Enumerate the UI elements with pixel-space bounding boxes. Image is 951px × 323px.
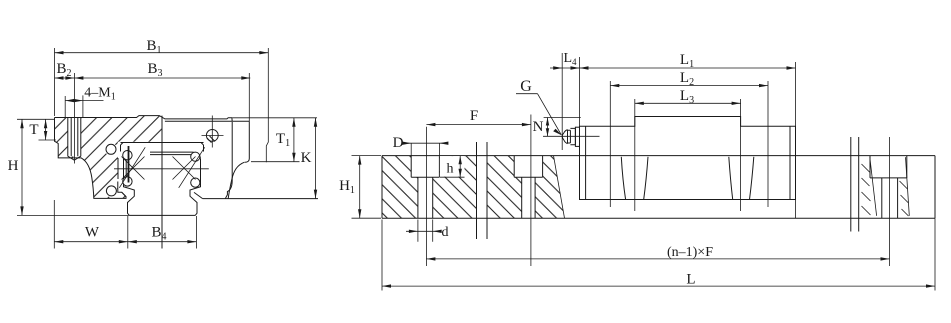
dim L	[382, 218, 935, 290]
rail right lower side	[190, 159, 201, 216]
rail cross-section	[121, 143, 204, 152]
dim H	[8, 119, 130, 215]
svg-text:W: W	[85, 225, 100, 241]
hole 3	[870, 156, 907, 219]
end cap right face	[245, 121, 250, 162]
end cap top (view half)	[232, 120, 249, 122]
hole voids	[411, 155, 439, 177]
carriage hatched body (left sectioned half)	[54, 116, 162, 199]
tapped hole M1	[68, 118, 81, 161]
svg-text:T: T	[29, 122, 38, 138]
dim (n-1)xF	[426, 137, 889, 266]
rail outline	[382, 156, 935, 219]
svg-text:h: h	[447, 162, 454, 177]
grease nipple	[562, 128, 575, 144]
dim L1	[580, 52, 796, 218]
svg-text:F: F	[470, 108, 478, 124]
dim F	[426, 108, 531, 266]
svg-text:H: H	[8, 158, 19, 174]
dim H1	[339, 156, 381, 219]
label G with leader	[516, 78, 562, 135]
dim B1	[55, 38, 269, 162]
carriage outline	[55, 116, 233, 122]
balls	[106, 144, 116, 154]
svg-text:K: K	[301, 150, 312, 166]
carriage left profile	[55, 118, 127, 199]
carriage counterbore hole (view half)	[206, 130, 218, 142]
svg-text:D: D	[393, 135, 404, 151]
hole 1	[411, 156, 439, 219]
carriage inner wall (cavity boundary)	[118, 182, 126, 197]
dim L4	[550, 51, 580, 150]
break lines	[477, 137, 859, 239]
rail left groove outline	[118, 158, 126, 179]
end cap skirt curve	[228, 162, 244, 198]
tapped hole M1 void	[68, 118, 81, 157]
carriage right edge (view half)	[225, 122, 232, 199]
svg-text:N: N	[533, 119, 544, 135]
carriage side view	[580, 117, 796, 200]
hole 3 tapered wall lines	[870, 157, 910, 216]
carriage top step second line (view half)	[165, 120, 232, 122]
dim B2 / B3	[55, 61, 251, 121]
rail left lower side	[124, 159, 135, 216]
dim K	[301, 118, 318, 199]
svg-text:L: L	[686, 272, 695, 288]
groove bold line	[128, 146, 130, 183]
dim N	[533, 118, 581, 137]
dim W	[54, 200, 196, 249]
dim h	[440, 156, 465, 177]
rail hatched segments	[382, 155, 565, 219]
hole 2	[514, 156, 542, 219]
dim d	[406, 220, 449, 242]
dim T1	[233, 118, 318, 162]
ball cavity voids	[105, 143, 118, 156]
legs	[621, 157, 754, 200]
svg-text:G: G	[520, 78, 532, 95]
section centerline	[161, 116, 163, 249]
dim T	[29, 119, 56, 140]
contact angle crosses	[119, 147, 145, 188]
carriage right lip chamfer	[194, 192, 203, 198]
dim L2	[610, 70, 768, 207]
hole 3 area hatch ticks	[862, 164, 909, 216]
rail bottom	[129, 214, 195, 216]
hole centerline	[73, 86, 75, 164]
dim 4-M1	[65, 86, 116, 118]
dim D	[393, 135, 449, 156]
dim L3	[635, 88, 741, 211]
svg-text:d: d	[442, 225, 449, 240]
svg-text:(n–1)×F: (n–1)×F	[667, 245, 713, 260]
rail groove edge lines	[150, 152, 201, 159]
carriage bottom right	[203, 198, 318, 200]
